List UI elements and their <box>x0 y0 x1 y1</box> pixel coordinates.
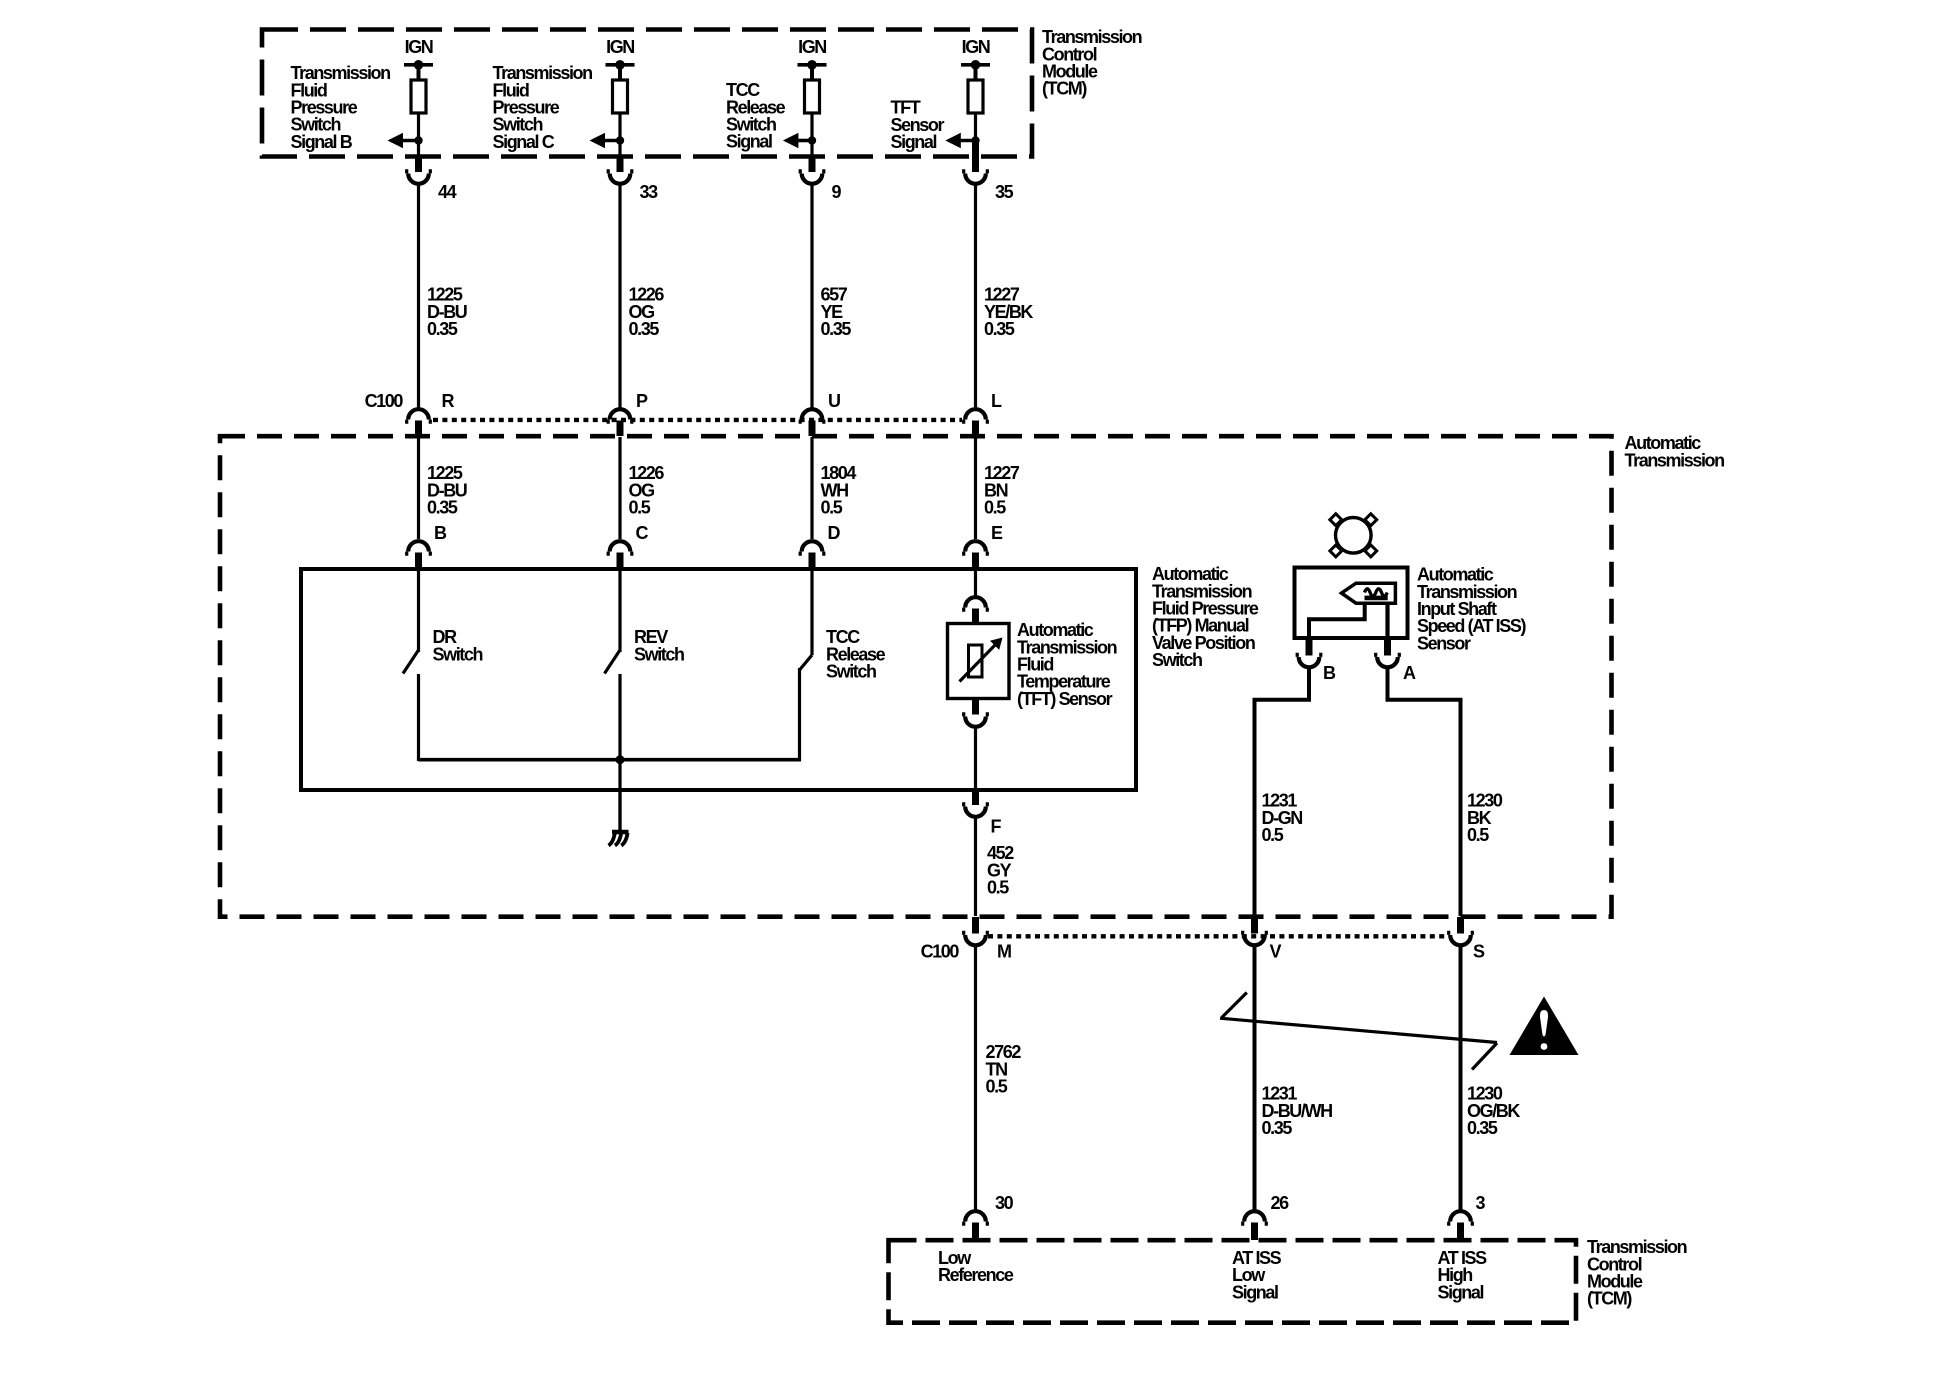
wire DR switch to common bus <box>417 674 420 761</box>
svg-text:Switch: Switch <box>433 644 483 664</box>
wire circuit 1231 D-BU/WH, C100 pin V to TCM pin 26 <box>1253 946 1257 1210</box>
connector pin A male terminal <box>1384 638 1391 656</box>
svg-text:0.5: 0.5 <box>1467 825 1489 845</box>
switch REV, blade (open) <box>605 650 621 674</box>
svg-text:0.35: 0.35 <box>1467 1118 1498 1138</box>
connector pin B female terminal <box>1296 655 1323 668</box>
power rail IGN tap, column 3 <box>798 63 827 67</box>
resistor (pull-up) column 3 <box>805 80 820 113</box>
wire IGN tap to resistor R3 <box>810 65 814 80</box>
connector pin D at transmission, female terminal <box>799 541 826 553</box>
svg-text:44: 44 <box>438 182 457 202</box>
svg-text:C: C <box>636 523 649 543</box>
connector TCM pin 3 female terminal <box>1447 1211 1474 1224</box>
svg-text:0.35: 0.35 <box>629 319 660 339</box>
connector TFT sensor top, female terminal <box>962 597 989 610</box>
svg-text:26: 26 <box>1271 1193 1290 1213</box>
thermistor variable arrow <box>960 643 998 682</box>
wire pin C to REV switch <box>618 570 621 652</box>
wire resistor R3 to signal node <box>810 113 813 157</box>
connector pin E at transmission, female terminal <box>962 541 989 554</box>
signal take-off arrow, column 4 <box>945 133 961 148</box>
connector pin F male terminal below TFP box <box>972 790 979 805</box>
svg-text:0.5: 0.5 <box>987 878 1009 898</box>
wire REV switch to ground <box>618 674 621 830</box>
connector TFT sensor bottom, male terminal <box>972 699 979 715</box>
svg-text:R: R <box>442 391 455 411</box>
wire resistor R4 to signal node <box>974 113 977 157</box>
connector pin 33 at TCM, male terminal <box>617 156 624 172</box>
internal wire AT ISS sensor to pin A <box>1385 602 1389 638</box>
connector TCM pin 26 female terminal <box>1241 1211 1268 1223</box>
wire circuit 2762 TN, C100 pin M to TCM pin 30 <box>974 946 977 1210</box>
wire TCC release switch to common bus <box>798 668 801 761</box>
module box: Automatic Transmission (dashed) <box>220 436 1612 917</box>
svg-text:0.35: 0.35 <box>427 319 458 339</box>
svg-text:IGN: IGN <box>962 37 990 57</box>
svg-text:0.35: 0.35 <box>821 319 852 339</box>
connector pin B male terminal <box>415 553 422 570</box>
connector pin 44 female terminal <box>405 171 432 184</box>
connector TCM pin 30 female terminal <box>962 1211 989 1224</box>
connector pin B male terminal <box>1306 638 1313 656</box>
connector C100 pin M male terminal <box>972 917 979 934</box>
svg-text:0.5: 0.5 <box>984 498 1006 518</box>
svg-text:B: B <box>434 523 447 543</box>
connector pin C male terminal <box>617 553 624 570</box>
svg-text:33: 33 <box>640 182 659 202</box>
power rail IGN tap, column 4 <box>961 63 990 67</box>
component box: Automatic Transmission Fluid Pressure (TFP) Manual Valve Position Switch <box>301 569 1136 790</box>
wire pin E to TFT sensor connector <box>974 570 977 596</box>
harness connector C100 row 1 interconnect (dotted) <box>433 418 962 422</box>
svg-text:Sensor: Sensor <box>1417 633 1471 653</box>
power rail IGN tap, column 1 <box>404 63 433 67</box>
connector pin E male terminal <box>972 553 979 570</box>
connector TCM pin 26 male terminal <box>1251 1223 1258 1241</box>
junction dot on bus at REV switch <box>616 755 625 764</box>
svg-text:P: P <box>636 391 648 411</box>
wire circuit 1227 BN, C100 to transmission, column 4 <box>974 437 977 539</box>
svg-text:V: V <box>1270 942 1282 962</box>
svg-text:0.5: 0.5 <box>986 1077 1008 1097</box>
switch DR, blade (open) <box>403 650 419 674</box>
svg-text:Signal: Signal <box>891 132 937 152</box>
junction dot at signal node, column 4 <box>971 136 979 144</box>
connector TCM pin 30 male terminal <box>972 1223 979 1241</box>
connector C100 pin U male terminal <box>809 421 816 437</box>
connector C100 pin S female terminal <box>1447 933 1474 946</box>
connector C100 pin V female terminal <box>1241 933 1268 945</box>
module box: Transmission Control Module (TCM), bottom <box>889 1240 1577 1323</box>
thermistor element inside TFT sensor <box>969 645 983 677</box>
wire IGN tap to resistor R2 <box>618 65 622 80</box>
svg-text:B: B <box>1323 663 1336 683</box>
signal take-off arrow, column 3 <box>783 133 799 148</box>
wire circuit 1230 BK, pin A to C100 pin S <box>1388 669 1461 916</box>
switch TCC Release, blade <box>800 655 813 670</box>
component box: TFT sensor <box>948 624 1010 699</box>
svg-text:0.5: 0.5 <box>821 498 843 518</box>
wire circuit 1230 OG/BK, C100 pin S to TCM pin 3 <box>1459 946 1463 1210</box>
connector TFT sensor bottom, female terminal <box>962 714 989 727</box>
svg-text:0.35: 0.35 <box>427 498 458 518</box>
junction dot at signal node, column 2 <box>616 136 624 144</box>
wire IGN tap to resistor R1 <box>417 65 421 80</box>
wire circuit 1225 D-BU, C100 to transmission, column 1 <box>417 437 420 539</box>
wire circuit 1226 OG, TCM pin 33 to C100 pin P <box>618 186 621 408</box>
junction dot at signal node, column 1 <box>414 136 422 144</box>
connector C100 pin L female terminal <box>962 409 989 422</box>
internal wire AT ISS sensor to pin B <box>1309 602 1365 638</box>
svg-text:IGN: IGN <box>798 37 826 57</box>
connector C100 pin R male terminal <box>415 421 422 437</box>
svg-text:Signal: Signal <box>726 132 772 152</box>
svg-text:E: E <box>991 523 1003 543</box>
power rail IGN tap, column 2 <box>606 63 635 67</box>
connector C100 pin P female terminal <box>607 409 634 421</box>
wire circuit 1225 D-BU, TCM pin 44 to C100 pin R <box>417 186 420 408</box>
svg-text:IGN: IGN <box>606 37 634 57</box>
connector pin A female terminal <box>1374 655 1401 668</box>
connector pin 9 female terminal <box>799 171 826 183</box>
svg-text:C100: C100 <box>365 391 404 411</box>
wire circuit 1804 WH, C100 to transmission, column 3 <box>810 437 813 539</box>
wire pin D to TCC release switch <box>810 570 813 655</box>
svg-text:U: U <box>828 391 840 411</box>
connector C100 pin V male terminal <box>1251 917 1258 934</box>
connector C100 pin P male terminal <box>617 421 624 437</box>
connector C100 pin S male terminal <box>1457 917 1464 934</box>
pickup element inside AT ISS sensor <box>1342 583 1396 603</box>
svg-text:(TCM): (TCM) <box>1587 1289 1632 1309</box>
svg-text:0.5: 0.5 <box>1262 825 1284 845</box>
wire circuit 1231 D-GN, pin B to C100 pin V <box>1255 669 1310 916</box>
svg-text:Reference: Reference <box>938 1265 1014 1285</box>
svg-text:(TFT) Sensor: (TFT) Sensor <box>1017 689 1113 709</box>
svg-text:0.35: 0.35 <box>1262 1118 1293 1138</box>
svg-text:Transmission: Transmission <box>1625 450 1725 470</box>
wire circuit 1226 OG, C100 to transmission, column 2 <box>618 437 621 539</box>
connector pin 35 female terminal <box>962 171 989 184</box>
connector pin C at transmission, female terminal <box>607 541 634 553</box>
signal take-off arrow, column 2 <box>590 133 606 148</box>
svg-text:Switch: Switch <box>826 662 876 682</box>
icon: input shaft gear of AT ISS sensor <box>1336 518 1372 554</box>
svg-text:3: 3 <box>1476 1193 1486 1213</box>
wire resistor R1 to signal node <box>417 113 420 157</box>
wire circuit 1227 YE/BK, TCM pin 35 to C100 pin L <box>974 186 977 408</box>
svg-text:0.5: 0.5 <box>629 498 651 518</box>
ground wire through TFP box <box>618 788 621 830</box>
resistor (pull-up) column 1 <box>411 80 426 113</box>
svg-text:L: L <box>991 391 1002 411</box>
component box: AT ISS sensor <box>1295 568 1408 639</box>
wire common bus inside TFP switch <box>419 758 802 762</box>
svg-text:S: S <box>1473 942 1485 962</box>
svg-text:Switch: Switch <box>634 644 684 664</box>
connector pin 35 at TCM, male terminal <box>972 143 979 172</box>
wire circuit 452 GY, pin F to C100 pin M <box>974 819 977 917</box>
svg-text:Signal B: Signal B <box>291 132 353 152</box>
resistor (pull-up) column 2 <box>613 80 628 113</box>
svg-text:F: F <box>991 817 1002 837</box>
signal take-off arrow, column 1 <box>388 133 404 148</box>
junction dot at signal node, column 3 <box>808 136 816 144</box>
svg-text:Signal: Signal <box>1232 1282 1278 1302</box>
connector TFT sensor top, male terminal <box>972 609 979 625</box>
resistor (pull-up) column 4 <box>968 80 983 113</box>
svg-text:A: A <box>1403 663 1416 683</box>
svg-text:30: 30 <box>995 1193 1014 1213</box>
wire TFT sensor to TFP box edge <box>974 729 977 789</box>
wire pin B to DR switch <box>417 570 420 652</box>
connector C100 pin U female terminal <box>799 409 826 421</box>
connector C100 pin R female terminal <box>405 409 432 422</box>
svg-text:(TCM): (TCM) <box>1042 79 1087 99</box>
connector pin 9 at TCM, male terminal <box>809 156 816 172</box>
ground symbol <box>612 830 629 835</box>
svg-text:Signal: Signal <box>1438 1282 1484 1302</box>
svg-text:9: 9 <box>832 182 842 202</box>
connector pin 33 female terminal <box>607 171 634 183</box>
module box: Transmission Control Module (TCM), top <box>262 30 1032 157</box>
svg-text:Signal C: Signal C <box>493 132 555 152</box>
connector C100 pin M female terminal <box>962 933 989 946</box>
twisted-pair indicator across AT ISS wires <box>1220 993 1497 1070</box>
svg-text:D: D <box>828 523 841 543</box>
svg-text:0.35: 0.35 <box>984 319 1015 339</box>
wire resistor R2 to signal node <box>618 113 621 157</box>
warning triangle symbol <box>1510 997 1579 1056</box>
svg-text:C100: C100 <box>921 942 960 962</box>
svg-text:Switch: Switch <box>1152 650 1202 670</box>
wire IGN tap to resistor R4 <box>974 65 978 80</box>
connector C100 pin L male terminal <box>972 421 979 437</box>
svg-text:IGN: IGN <box>405 37 433 57</box>
connector pin B at transmission, female terminal <box>405 541 432 554</box>
wire circuit 657 YE, TCM pin 9 to C100 pin U <box>810 186 813 408</box>
connector pin D male terminal <box>809 553 816 570</box>
svg-text:M: M <box>997 942 1011 962</box>
harness connector C100 row 2 interconnect (dotted) <box>988 934 1449 938</box>
connector pin F female terminal <box>962 804 989 817</box>
connector TCM pin 3 male terminal <box>1457 1223 1464 1241</box>
connector pin 44 at TCM, male terminal <box>415 156 422 172</box>
svg-text:35: 35 <box>995 182 1014 202</box>
